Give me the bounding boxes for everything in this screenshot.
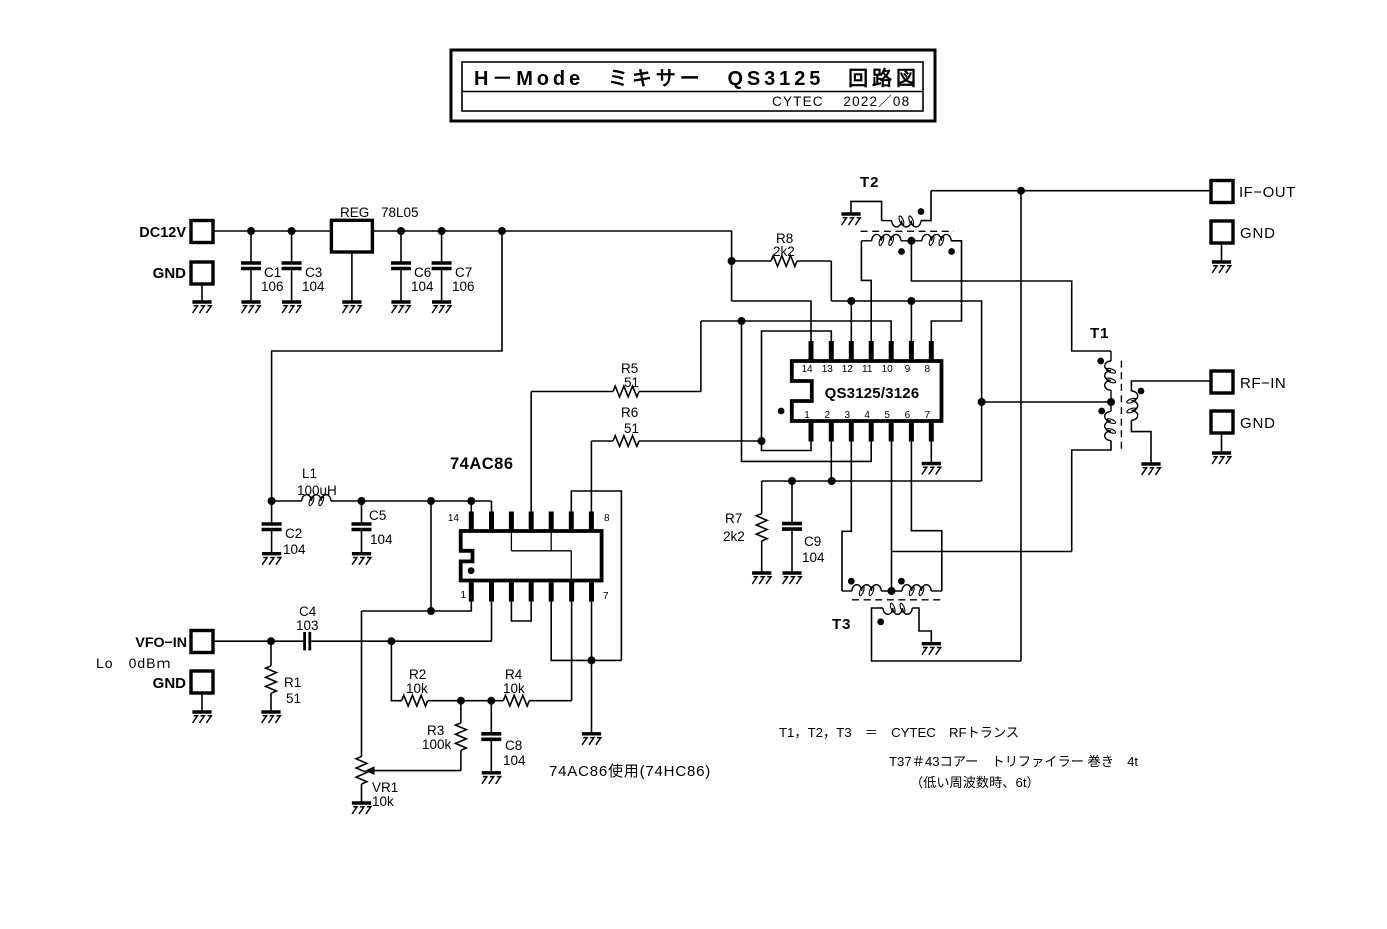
wire R6 node riser to pin 13 [762, 331, 832, 441]
svg-text:R3: R3 [427, 723, 444, 738]
svg-text:R4: R4 [505, 667, 523, 682]
wire T1 secondary bottom lead to ground [1131, 420, 1151, 464]
svg-text:106: 106 [261, 279, 284, 294]
svg-text:R1: R1 [284, 675, 301, 690]
T1 secondary winding [1131, 391, 1137, 420]
svg-text:2: 2 [825, 410, 831, 421]
wire T3 center segment [881, 590, 902, 592]
svg-text:10k: 10k [372, 794, 394, 809]
svg-text:51: 51 [624, 421, 639, 436]
T3 core dashed line [852, 599, 942, 601]
wire VFO-IN to C4 [213, 640, 303, 642]
svg-text:1: 1 [460, 590, 466, 601]
capacitor C1 106 [250, 231, 252, 263]
title block outer frame [451, 50, 935, 121]
resistor R3 100k [460, 701, 462, 723]
wire 74AC86 pin8 up to R6 [590, 441, 592, 512]
svg-text:9: 9 [905, 364, 911, 375]
wire VCC to QS3125 pin 14 [732, 301, 811, 341]
svg-text:T3: T3 [832, 616, 852, 633]
wire QS3125 pin2 to R7 rail [830, 442, 832, 482]
ground (IF GND terminal) [1212, 260, 1231, 263]
wire pin1 tie rail (VR1 top / VCC / pin1) [362, 602, 472, 611]
node C3 junction [288, 227, 296, 235]
svg-text:7: 7 [603, 591, 609, 602]
svg-text:78L05: 78L05 [381, 205, 419, 220]
ground (74AC86 pins 5/7/9) [582, 732, 601, 735]
capacitor C4 103 [303, 632, 306, 650]
node C9 junction [788, 477, 796, 485]
wire QS3125 pin7 to ground [930, 442, 932, 464]
QS3125 bottom pin stubs [809, 421, 814, 442]
wire ground node down to ground symbol [591, 660, 593, 733]
wire 74AC86 pins 3-4 tie [511, 602, 531, 621]
wire GND terminal to ground [201, 284, 203, 303]
T1 primary lower phase dot [1098, 408, 1105, 415]
T1 core dashed line [1120, 361, 1122, 452]
wire IF GND terminal to ground [1221, 243, 1223, 263]
ground (VR1) [352, 801, 371, 804]
inductor L1 100uH [272, 500, 302, 502]
title block divider line [462, 91, 923, 93]
svg-text:R5: R5 [621, 361, 638, 376]
node T3 primary center junction [888, 587, 896, 595]
wire DC rail drop to R8 [731, 231, 733, 301]
svg-text:10: 10 [882, 364, 894, 375]
wire T1 primary top lead [1110, 351, 1112, 361]
wire T2 secondary right lead to QS3125 pin8 [931, 241, 961, 341]
ground (REG) [342, 300, 361, 303]
QS3125 pin 1 dot [778, 408, 785, 415]
resistor R8 2k2 [732, 260, 771, 262]
svg-text:74AC86: 74AC86 [450, 455, 514, 473]
node pin1 tie junction [427, 607, 435, 615]
svg-text:GND: GND [153, 265, 187, 282]
node L1 left junction [268, 497, 276, 505]
svg-text:14: 14 [448, 513, 460, 524]
svg-text:C8: C8 [505, 738, 522, 753]
node T1 primary center junction [1107, 398, 1115, 406]
wire T1 primary mid segment [1110, 390, 1112, 411]
T2 secondary right winding [922, 234, 951, 240]
svg-text:8: 8 [925, 364, 931, 375]
svg-text:QS3125/3126: QS3125/3126 [825, 385, 920, 402]
wire T3 secondary right lead to ground [912, 608, 931, 644]
capacitor C8 104 [490, 701, 492, 734]
T1 primary upper winding [1105, 361, 1111, 390]
wire 74AC86 pin6 down to R4 [571, 602, 573, 701]
wire IF-OUT rail [931, 190, 1211, 192]
wire T2 secondary left lead to QS3125 pin11 [861, 241, 871, 341]
wire T1 primary bottom lead [1072, 441, 1111, 552]
wire R2 left drop [391, 641, 401, 701]
74AC86 top pin stubs [469, 512, 474, 532]
capacitor C7 106 [441, 231, 443, 263]
node C6 junction [397, 227, 405, 235]
ground (RF GND terminal) [1212, 451, 1231, 454]
svg-text:13: 13 [822, 364, 834, 375]
wire REG output rail [372, 230, 731, 232]
potentiometer VR1 10k [356, 757, 367, 785]
svg-text:T37＃43コアー トリファイラー 巻き 4t: T37＃43コアー トリファイラー 巻き 4t [889, 754, 1138, 769]
capacitor C3 104 [291, 231, 293, 263]
svg-text:2k2: 2k2 [723, 529, 745, 544]
svg-text:GND: GND [153, 675, 187, 692]
svg-text:6: 6 [905, 410, 911, 421]
wire to 74AC86 pin 14 [470, 501, 472, 512]
svg-text:T2: T2 [860, 174, 880, 191]
terminal GND (IF) [1211, 221, 1233, 243]
svg-text:2k2: 2k2 [773, 244, 795, 259]
wire R3 to VR1 wiper [372, 770, 461, 772]
terminal DC12V [191, 221, 213, 243]
svg-text:（低い周波数時、6t）: （低い周波数時、6t） [910, 775, 1040, 790]
wire R6 node to QS3125 pin 1 [762, 441, 812, 451]
ground (QS3125 pin7) [922, 462, 941, 465]
ground (VFO GND terminal) [192, 710, 211, 713]
ground (C9) [782, 571, 801, 574]
svg-text:VFO−IN: VFO−IN [135, 635, 187, 651]
resistor R7 2k2 [761, 481, 763, 514]
wire QS3125 pin3 to T3 [842, 442, 851, 592]
T3 primary left phase dot [848, 578, 855, 585]
svg-text:104: 104 [370, 532, 393, 547]
node C8 junction [487, 697, 495, 705]
svg-text:5: 5 [884, 410, 890, 421]
svg-text:4: 4 [864, 410, 870, 421]
74AC86 pin 1 dot [468, 567, 475, 574]
wire to 74AC86 pin 13 [491, 501, 493, 512]
regulator REG 78L05 [331, 220, 372, 252]
ground (T3 secondary) [922, 642, 941, 645]
svg-text:11: 11 [862, 364, 873, 375]
terminal GND (VFO) [191, 671, 213, 693]
terminal IF-OUT [1211, 181, 1233, 203]
svg-text:GND: GND [1240, 415, 1276, 432]
T3 secondary phase dot [877, 618, 884, 625]
svg-text:VR1: VR1 [372, 780, 398, 795]
svg-text:RF−IN: RF−IN [1240, 375, 1286, 392]
node R6/pin1 junction [758, 437, 766, 445]
svg-text:106: 106 [452, 279, 475, 294]
svg-text:DC12V: DC12V [139, 225, 186, 241]
74AC86 bottom pin stubs [469, 581, 474, 602]
node R8 left junction [728, 257, 736, 265]
resistor R5 51 [531, 391, 613, 393]
wire VFO GND terminal to ground [201, 693, 203, 713]
wire T1 secondary top lead to RF-IN [1131, 381, 1211, 391]
wire inside IC pin12 to pin10 tie to pin6 column [510, 531, 512, 551]
wire VCC branch down-left to L1 [272, 231, 502, 501]
node R2 junction [387, 637, 395, 645]
svg-text:R6: R6 [621, 405, 638, 420]
svg-text:51: 51 [286, 691, 301, 706]
wire QS3125 pin5 to T3 center [891, 442, 893, 592]
svg-text:C5: C5 [369, 508, 386, 523]
ground (C2) [262, 552, 281, 555]
IC U1 QS3125/3126 body [792, 361, 942, 421]
svg-text:51: 51 [624, 375, 639, 390]
svg-text:10k: 10k [503, 681, 525, 696]
svg-text:T1，T2，T3 ＝ CYTEC RFトランス: T1，T2，T3 ＝ CYTEC RFトランス [779, 725, 1019, 740]
ground (C8) [482, 771, 501, 774]
node pin4 branch junction [738, 317, 746, 325]
wire T2 top winding right lead to IF-OUT rail [921, 191, 931, 221]
svg-text:104: 104 [302, 279, 325, 294]
node pin2 junction [828, 477, 836, 485]
svg-text:100uH: 100uH [297, 483, 337, 498]
node C5 junction [358, 497, 366, 505]
terminal RF-IN [1211, 371, 1233, 393]
wire DC12V rail to REG input [213, 230, 331, 232]
svg-text:12: 12 [842, 364, 854, 375]
T2 top winding phase dot [918, 208, 925, 215]
capacitor C9 104 [791, 481, 793, 524]
svg-text:L1: L1 [302, 466, 317, 481]
wire VR1 top column [361, 611, 363, 757]
T3 primary left winding [842, 590, 852, 592]
svg-text:H－Mode ミキサー QS3125 回路図: H－Mode ミキサー QS3125 回路図 [474, 66, 920, 90]
node T1 center tap junction [978, 398, 986, 406]
svg-text:C3: C3 [305, 265, 322, 280]
svg-text:100k: 100k [422, 737, 452, 752]
wire T3 center tap to T1 bottom [892, 551, 1072, 553]
wire T3 secondary left lead to IF-OUT branch [872, 608, 1022, 661]
VR1 wiper arrow [365, 766, 375, 775]
ground (DC12V GND terminal) [192, 300, 211, 303]
ground (C1) [241, 300, 260, 303]
wire QS3125 pin6 to T3 right [911, 442, 941, 592]
wire RF GND terminal to ground [1221, 433, 1223, 454]
T1 primary upper phase dot [1097, 358, 1104, 365]
wire pin4 branch [742, 321, 872, 461]
svg-text:14: 14 [801, 364, 813, 375]
svg-text:T1: T1 [1090, 325, 1110, 342]
svg-text:CYTEC 2022／08: CYTEC 2022／08 [772, 94, 910, 109]
svg-text:C1: C1 [264, 265, 281, 280]
T1 secondary phase dot [1138, 388, 1145, 395]
svg-text:10k: 10k [406, 681, 428, 696]
wire VCC rail to 74AC86 pin 14/13 [362, 500, 492, 502]
svg-text:Lo 0dBｍ: Lo 0dBｍ [96, 655, 171, 671]
QS3125 top pin stubs [809, 341, 814, 361]
capacitor C5 104 [361, 501, 363, 524]
svg-text:C2: C2 [285, 526, 302, 541]
svg-text:3: 3 [845, 410, 851, 421]
wire 74AC86 pin11 up to R5 [530, 392, 532, 512]
wire 74AC86 pin9 to ground column [571, 491, 621, 660]
resistor R6 51 [591, 440, 613, 442]
ground (C6) [391, 300, 410, 303]
node C1 junction [247, 227, 255, 235]
ground (R1) [261, 710, 280, 713]
wire R7 rail [762, 480, 982, 482]
wire T1 center tap [982, 401, 1111, 403]
ground (T1 secondary) [1141, 462, 1160, 465]
resistor R4 10k [491, 700, 503, 702]
resistor R2 10k [402, 695, 428, 706]
svg-text:104: 104 [411, 279, 434, 294]
resistor R1 51 [270, 641, 272, 666]
ground (R7) [752, 571, 771, 574]
svg-text:74AC86使用(74HC86): 74AC86使用(74HC86) [549, 763, 711, 780]
wire 74AC86 pin5 to ground node [551, 602, 591, 661]
wire C4 to 74AC86 pin2 riser [311, 640, 491, 642]
svg-text:104: 104 [503, 753, 526, 768]
wire QS3125 pin9 riser [910, 301, 912, 341]
terminal GND (DC12V) [191, 262, 213, 284]
T2 secondary right phase dot [948, 248, 955, 255]
T3 secondary winding [883, 608, 912, 614]
svg-text:C4: C4 [299, 604, 317, 619]
node C7 junction [438, 227, 446, 235]
wire T3 primary right lead [931, 590, 942, 592]
T1 primary lower winding [1105, 411, 1111, 440]
node R1 junction [267, 637, 275, 645]
node ground tie junction (pins5/7/9) [588, 656, 596, 664]
svg-text:C6: C6 [414, 265, 431, 280]
svg-text:C9: C9 [804, 534, 821, 549]
T2 secondary left phase dot [898, 248, 905, 255]
svg-text:R2: R2 [409, 667, 426, 682]
T3 primary right phase dot [898, 578, 905, 585]
svg-text:8: 8 [604, 513, 610, 524]
wire 74AC86 pin2 to VFO line [491, 602, 493, 642]
svg-text:R7: R7 [725, 511, 742, 526]
title block inner frame [462, 62, 923, 111]
node VCC tie branch junction [427, 497, 435, 505]
wire 74AC86 pin7 to ground node [591, 602, 593, 661]
wire REG ground lead [351, 252, 353, 302]
terminal VFO-IN [191, 631, 213, 653]
svg-text:IF−OUT: IF−OUT [1239, 184, 1296, 201]
svg-text:104: 104 [802, 550, 825, 565]
T2 top winding [882, 220, 892, 222]
svg-text:103: 103 [296, 618, 319, 633]
ground (C5) [352, 552, 371, 555]
IC U2 74AC86 body [461, 531, 602, 581]
wire R8 right drop to switch rail [830, 261, 832, 301]
node QS3125 pin12 junction [847, 297, 855, 305]
svg-text:1: 1 [804, 410, 810, 421]
wire VCC tie down to pin1 rail [430, 501, 432, 611]
T3 primary right winding [902, 585, 931, 591]
svg-text:GND: GND [1240, 225, 1276, 242]
wire T2 center to T1 top [911, 241, 1111, 351]
wire R2-R4 node [461, 700, 491, 702]
node IF-OUT branch junction [1017, 187, 1025, 195]
node T2 secondary center junction [907, 237, 915, 245]
capacitor C6 104 [400, 231, 402, 263]
wire R5 right up to pin10/pin4 line [700, 321, 702, 392]
svg-text:104: 104 [283, 542, 306, 557]
capacitor C2 104 [271, 501, 273, 524]
wire ground node east segment [592, 659, 622, 661]
node VCC branch junction [498, 227, 506, 235]
svg-text:7: 7 [925, 410, 931, 421]
T2 core dashed line [861, 230, 954, 232]
wire T2 top winding left lead [851, 201, 882, 220]
T2 secondary left winding [861, 240, 871, 242]
svg-text:C7: C7 [455, 265, 472, 280]
wire IF-OUT branch down to T3 [1020, 191, 1022, 661]
ground (C7) [432, 300, 451, 303]
wire R5 line to pins 10 and 4 [701, 321, 891, 341]
wire QS3125 pin12 riser [850, 301, 852, 341]
terminal GND (RF) [1211, 411, 1233, 433]
node R3 junction [457, 697, 465, 705]
ground (T2 primary) [841, 212, 860, 215]
svg-text:REG: REG [340, 205, 369, 220]
node QS3125 pin9 junction [907, 297, 915, 305]
node 74AC86 pin14 junction [467, 497, 475, 505]
wire switch rail (R8/pin12/pin9 to T1 tap) [831, 301, 981, 481]
ground (C3) [282, 300, 301, 303]
wire T2 center junction segment [901, 240, 922, 242]
